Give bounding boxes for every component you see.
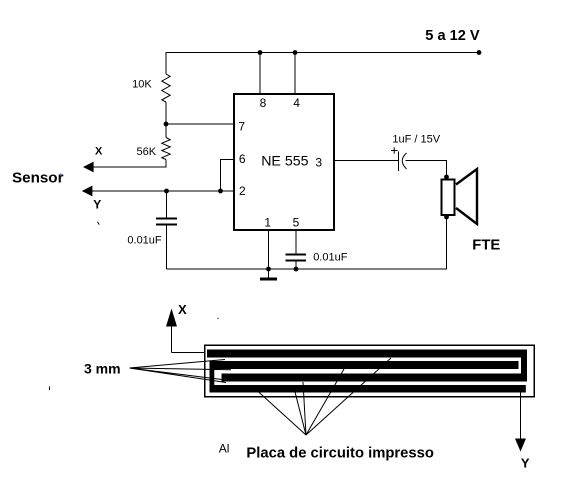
node: C2 / rail junction <box>294 267 299 272</box>
resistor R1 10K <box>162 74 170 102</box>
svg-text:56K: 56K <box>137 146 157 158</box>
stray mark: dot right of X axis label <box>217 318 219 320</box>
PCB trace: band A (top) <box>207 350 527 358</box>
svg-text:5 a 12 V: 5 a 12 V <box>425 28 480 44</box>
speaker FTE <box>442 180 455 216</box>
node: junction Y line / pin 6 <box>218 189 223 194</box>
wire: pin 3 to C3 <box>335 160 398 162</box>
svg-text:Sensor: Sensor <box>12 170 64 187</box>
svg-text:X: X <box>178 302 187 317</box>
svg-text:0.01uF: 0.01uF <box>127 234 162 246</box>
wire: 10K bottom to node <box>165 102 167 138</box>
svg-text:5: 5 <box>293 215 300 229</box>
svg-text:1: 1 <box>264 215 271 229</box>
capacitor C3 1uF/15V polarized <box>398 152 400 172</box>
svg-text:3: 3 <box>315 155 322 169</box>
svg-text:FTE: FTE <box>472 238 500 254</box>
svg-text:X: X <box>95 145 103 157</box>
wire: 56K bottom to X arrow line <box>92 160 166 168</box>
svg-text:NE 555: NE 555 <box>261 153 308 169</box>
capacitor C2 0.01uF <box>295 231 297 254</box>
svg-text:10K: 10K <box>132 79 152 91</box>
wire: Y line to pin 2 <box>90 190 233 192</box>
svg-text:Placa de circuito impresso: Placa de circuito impresso <box>246 446 434 462</box>
node: junction Y line / C1 <box>164 189 169 194</box>
ground <box>268 269 270 278</box>
wire: speaker down to rail <box>446 217 448 269</box>
resistor R2 56K <box>162 138 170 160</box>
svg-text:4: 4 <box>293 96 300 110</box>
svg-text:0.01uF: 0.01uF <box>313 252 348 264</box>
svg-text:8: 8 <box>260 96 267 110</box>
node: speaker top terminal <box>444 175 449 180</box>
wire: pin 8 to top rail <box>259 53 261 94</box>
wire: pin 6 branch <box>221 160 234 192</box>
PCB board outline <box>205 345 534 396</box>
svg-text:6: 6 <box>239 152 246 166</box>
stray mark: blue dot left of sensor arrows <box>60 174 62 176</box>
capacitor C1 0.01uF <box>166 191 168 217</box>
PCB trace: left connector B-D <box>210 361 215 393</box>
axis arrow Y (PCB) <box>520 393 522 441</box>
wire: node to pin 7 <box>166 123 233 125</box>
node: speaker bottom terminal <box>444 215 449 220</box>
node: junction pin4 / top rail <box>293 50 298 55</box>
node: junction pin8 / top rail <box>258 50 263 55</box>
wire: bottom ground rail <box>167 268 448 270</box>
PCB trace: right connector A-C <box>521 350 527 382</box>
svg-text:1uF / 15V: 1uF / 15V <box>392 134 440 146</box>
wire: pin 1 down to rail <box>268 231 270 269</box>
node: pin1 / rail junction <box>266 267 271 272</box>
plus sign of C3 <box>391 150 398 152</box>
PCB trace: band D (bottom) <box>210 385 526 393</box>
wire: C3 to speaker <box>406 161 447 178</box>
svg-text:7: 7 <box>238 119 245 133</box>
svg-text:Al: Al <box>219 442 230 456</box>
svg-text:2: 2 <box>239 184 246 198</box>
wire: pin 4 to top rail <box>294 53 296 94</box>
arrow: sensor terminal Y <box>82 186 93 197</box>
node: junction 10K/56K/pin7 <box>164 122 169 127</box>
svg-text:Y: Y <box>521 455 530 470</box>
wire: +V top rail <box>166 53 480 75</box>
IC U1 NE 555 <box>234 94 334 230</box>
node: supply end dot <box>477 50 482 55</box>
svg-text:3 mm: 3 mm <box>84 361 121 377</box>
callout fan lines from 3 mm <box>130 360 232 383</box>
PCB trace: band C <box>222 374 528 382</box>
stray mark: tick below Y label <box>98 222 100 225</box>
callout fan lines from Placa label <box>257 358 391 435</box>
axis arrow X (PCB) <box>171 324 173 353</box>
arrow: sensor terminal X <box>83 162 94 173</box>
stray mark: small tick left of 3mm <box>49 387 51 391</box>
svg-text:Y: Y <box>93 197 101 211</box>
PCB trace: band B <box>210 361 519 369</box>
